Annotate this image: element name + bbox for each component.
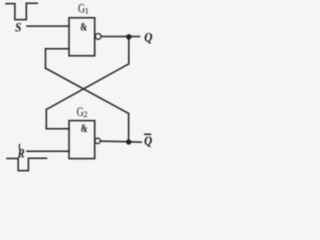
wire Q output [101, 36, 139, 38]
node Q junction [126, 34, 131, 39]
wire Qbar feedback diagonal to G1 [46, 68, 129, 113]
svg-text:S: S [15, 19, 21, 34]
nand gate G2 box [69, 121, 95, 159]
input waveform R (negative pulse) [7, 158, 47, 170]
wire G1 lower input [46, 48, 70, 50]
wire S input [27, 25, 69, 27]
svg-text:2: 2 [83, 109, 87, 119]
overbar of Qbar [144, 134, 151, 135]
op bubble G2 output [95, 138, 100, 143]
wire feedback into G2 input [46, 128, 69, 130]
svg-text:Q: Q [144, 133, 153, 148]
svg-text:R: R [17, 145, 25, 160]
wire Q feedback vertical [128, 37, 130, 64]
wire feedback vertical left [45, 110, 47, 129]
wire Q feedback diagonal to G2 [46, 64, 129, 110]
wire Qbar feedback vertical [128, 114, 130, 143]
nand gate G1 box [69, 18, 95, 56]
node Qbar junction [126, 139, 131, 144]
wire Qbar output [100, 141, 141, 142]
svg-text:1: 1 [85, 5, 89, 15]
wire R input [27, 150, 69, 152]
op bubble G1 output [95, 34, 101, 40]
wire G1 feedback vertical [45, 49, 47, 68]
input waveform S (negative pulse) [6, 3, 37, 19]
svg-text:Q: Q [144, 29, 153, 44]
svg-text:&: & [80, 22, 87, 34]
svg-text:&: & [81, 123, 88, 135]
stray tick above R [18, 144, 20, 148]
